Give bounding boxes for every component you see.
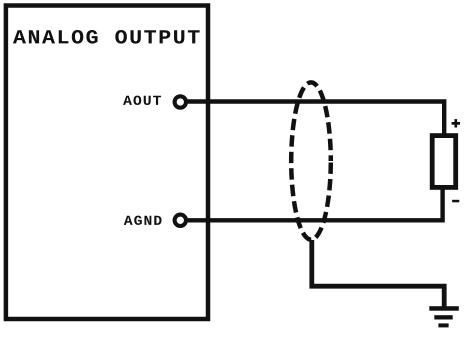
wire shield drain to earth ground: [312, 240, 444, 307]
polarity -: [452, 200, 459, 203]
cable shield (dashed ellipse): [291, 82, 331, 239]
earth ground symbol: [429, 306, 459, 327]
label ANALOG OUTPUT: [13, 30, 200, 44]
wire AGND to load - (bottom run and right drop): [188, 186, 443, 220]
polarity +: [452, 119, 460, 127]
wire AOUT to load + (top run and right drop): [188, 102, 445, 138]
pin label AOUT: [123, 96, 161, 105]
load resistor (rectangle): [432, 136, 456, 188]
module box ANALOG OUTPUT: [6, 6, 208, 320]
pin label AGND: [124, 216, 162, 225]
terminal AGND (open circle): [175, 215, 186, 226]
terminal AOUT (open circle): [175, 96, 186, 107]
